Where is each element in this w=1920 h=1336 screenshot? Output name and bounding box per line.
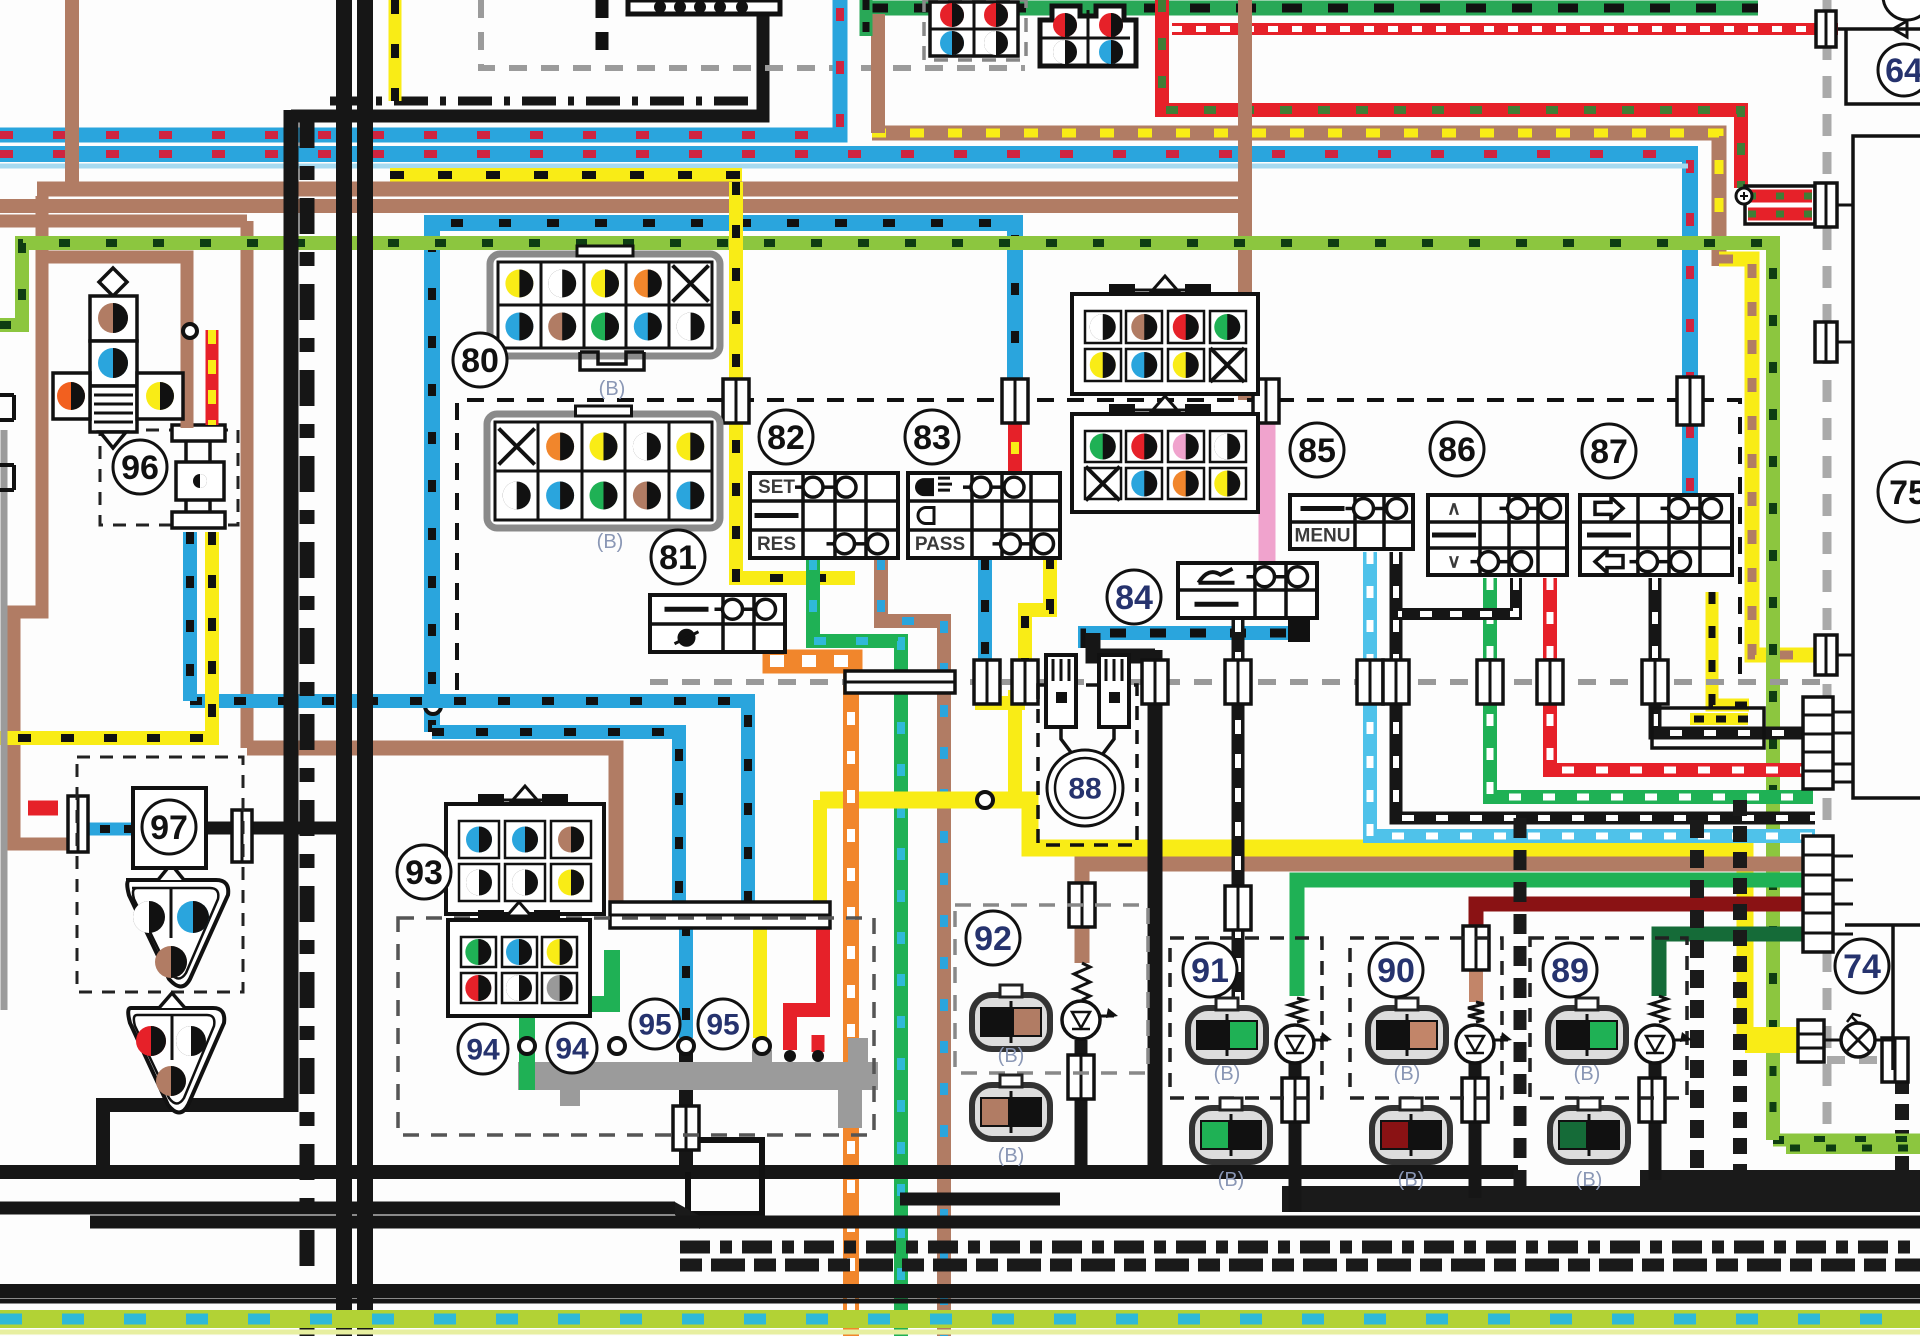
wire battery links [1838, 204, 1853, 207]
wire red 95 [790, 924, 823, 1050]
wire black-white 18 [1396, 552, 1815, 818]
bar 87black [1642, 660, 1668, 704]
wire black 88 main [1148, 650, 1163, 1170]
wire black 86b [1398, 578, 1516, 614]
wire black 87a [1655, 578, 1815, 733]
bar 75 bottom [1815, 635, 1837, 675]
bar 75 top [1815, 322, 1837, 362]
svg-text:SET: SET [758, 477, 795, 498]
circle 93 [397, 845, 451, 899]
connector bar 81 [723, 379, 749, 423]
wire brown-yellow [872, 133, 1719, 266]
svg-text:∧: ∧ [1447, 498, 1461, 519]
bar red top [1816, 11, 1836, 47]
wire brown 90 drop [1469, 956, 1483, 1002]
wire brown 93 drop [241, 221, 254, 748]
connector top edge [628, 0, 780, 14]
connector 93a [446, 786, 604, 914]
circle 94 b [547, 1023, 597, 1073]
wire brown band 2 [0, 199, 1252, 213]
bulb connector 90b [1372, 1098, 1450, 1191]
long connector bar 94-95 [610, 902, 830, 928]
lamp 74 [1824, 1014, 1893, 1057]
switch table 84 [1178, 563, 1317, 618]
connector 80 tail [580, 352, 644, 370]
wire black-white dashed drop A [1733, 800, 1747, 1178]
circle 96 [113, 440, 167, 494]
left edge stub B [0, 465, 14, 490]
svg-text:(B): (B) [1214, 1063, 1241, 1085]
wire black slab B [1640, 1170, 1920, 1192]
lamp 90 [1456, 1025, 1512, 1063]
94-95 link dots [519, 1038, 535, 1054]
wire black bundle A [336, 0, 352, 1336]
circle 97 [142, 800, 196, 854]
svg-text:89: 89 [1551, 952, 1589, 990]
svg-text:84: 84 [1115, 579, 1153, 617]
box 64 [1838, 29, 1920, 104]
circle 85 [1290, 423, 1344, 477]
bar brown 92 [1069, 883, 1095, 927]
wire lime-black 8 [0, 243, 1773, 1140]
svg-text:88: 88 [1068, 773, 1101, 806]
circle 90 [1369, 943, 1423, 997]
connector top mid [930, 2, 1018, 56]
comb connector AB [1803, 697, 1833, 789]
wire red-white 20 [1550, 578, 1813, 770]
wire green-cyan [813, 558, 901, 1336]
relay box 94 [688, 1140, 762, 1214]
connector 93b [448, 902, 590, 1016]
lime dashed frame [1773, 1062, 1920, 1148]
wire blue-black 9a [190, 701, 748, 905]
bulb connector 91a [1188, 998, 1266, 1085]
wire green 94 path [527, 950, 612, 1090]
bar 90 low [1462, 1078, 1488, 1122]
svg-text:93: 93 [405, 854, 443, 892]
black terminal under 84 [1288, 620, 1310, 642]
circle 88 [1047, 750, 1123, 826]
wire black slab A [1282, 1186, 1920, 1212]
wire orange [843, 673, 859, 1336]
svg-text:RES: RES [757, 534, 796, 555]
wire yellow 96 L [0, 532, 212, 738]
red stub 97 [28, 801, 58, 816]
resistor 90 [1468, 1002, 1484, 1022]
bulb connector 90a [1368, 998, 1446, 1085]
resistor 91 [1289, 998, 1305, 1022]
black dashes above top connector [596, 0, 609, 58]
connector bar 83 [1002, 379, 1028, 423]
bar 91 feed top [1225, 660, 1251, 704]
bar blue-yellow [974, 660, 1000, 704]
circle 94 a [458, 1024, 508, 1074]
wire blue-red 1 [0, 0, 840, 135]
wire black top L [291, 0, 763, 116]
wire blue-black 9b [432, 732, 679, 905]
bar 92 low [1068, 1055, 1094, 1099]
diagonal step [675, 1202, 700, 1229]
wire blue-black 7 [432, 223, 1015, 732]
dashed box 91 [1170, 938, 1322, 1098]
wire yellow main [820, 800, 1798, 1040]
svg-text:94: 94 [466, 1034, 500, 1067]
bar 89 low [1639, 1078, 1665, 1122]
wire yellow-black 5 [390, 168, 742, 182]
circle 80 [453, 333, 507, 387]
gray dashed vertical right [1823, 0, 1832, 1130]
wire blue 95 [679, 924, 693, 1038]
red pin dots [784, 1050, 796, 1062]
wire black dashed row A [680, 1241, 1920, 1254]
lamp 89 [1636, 1025, 1692, 1063]
switch table 85 MENU [1290, 495, 1413, 549]
wire yellow to bar [813, 800, 827, 905]
gray dashed harness line [650, 679, 1830, 685]
wire brown band 1 [37, 182, 1252, 197]
wire yellow link U [982, 690, 1025, 703]
svg-text:81: 81 [659, 539, 697, 577]
dashed box 96 [100, 430, 238, 525]
switch table 83 PASS [908, 473, 1060, 558]
wire black row 92 stub [900, 1193, 1060, 1206]
wire red pin 2 [812, 1035, 825, 1052]
horn lines 88 [1061, 727, 1114, 755]
junction dot yellow [977, 792, 993, 808]
wire black dashed row B [680, 1259, 1920, 1272]
wire brown top stub [871, 14, 885, 133]
svg-text:85: 85 [1298, 432, 1336, 470]
wire black 91 drop [1289, 1062, 1302, 1212]
svg-text:(B): (B) [597, 531, 624, 553]
wire pink [1259, 398, 1276, 563]
wire darkgreen 16 [1659, 934, 1815, 996]
dashed box 97 [77, 757, 243, 992]
wire lime frame [1773, 1134, 1920, 1147]
circle 95 b [698, 999, 748, 1049]
wire blue pass [978, 558, 992, 674]
yellow stub thick [1745, 1027, 1798, 1053]
switch table 82 SET/RES [750, 473, 898, 558]
wire blue-red 2 [0, 154, 1690, 500]
svg-text:(B): (B) [1394, 1063, 1421, 1085]
bar 88 feed [1142, 660, 1168, 704]
bulb connector 91b [1192, 1098, 1270, 1191]
wire black mid drop [1514, 818, 1527, 1195]
wire brown 92 feed [1075, 864, 1090, 963]
circle 83 [905, 410, 959, 464]
svg-text:97: 97 [150, 809, 188, 847]
svg-text:(B): (B) [1398, 1169, 1425, 1191]
wire yellow drop [1008, 690, 1022, 800]
bar yellow [1012, 660, 1038, 704]
wire pale yellow bottom [0, 1330, 1920, 1335]
left edge stub A [0, 395, 14, 420]
gray dashed stub 74 [1827, 1056, 1920, 1064]
svg-text:(B): (B) [1574, 1063, 1601, 1085]
connector bar pink [1253, 379, 1279, 423]
dashed box 88 [1038, 685, 1137, 845]
wire black row L3 [0, 1202, 675, 1215]
wire black 97 L [103, 1105, 298, 1178]
box 74 [1845, 925, 1920, 1070]
wire black right drop [1690, 820, 1704, 1180]
svg-text:75: 75 [1889, 474, 1920, 512]
wire yellow 81 vert [736, 182, 855, 578]
gray bus bar [518, 1062, 878, 1090]
bar red20 [1537, 660, 1563, 704]
bar 90 top [1463, 926, 1489, 970]
wire black row 6 [0, 1299, 1920, 1304]
wire blue-black 22 [1085, 633, 1308, 648]
bar battery [1815, 183, 1837, 227]
wire yellow 87b [1712, 592, 1749, 705]
wire black 90 drop [1469, 1062, 1482, 1198]
switch table 86 [1428, 495, 1567, 575]
svg-text:86: 86 [1438, 431, 1476, 469]
wire black 95 drop [679, 1046, 693, 1172]
connector triangle 97b [128, 993, 224, 1113]
connector top right [1040, 6, 1136, 66]
wire gray dashed boundary top [481, 0, 1025, 68]
connector bar 87 [1677, 377, 1703, 425]
wire brown left edge [14, 196, 70, 844]
wire yellow pass [1025, 557, 1050, 676]
black box detail right [1652, 708, 1764, 748]
wire brown band 3 [0, 215, 247, 228]
wire black 92 drop [1075, 1040, 1088, 1172]
circle 89 [1543, 943, 1597, 997]
connector bar long [845, 671, 955, 693]
svg-text:PASS: PASS [915, 534, 965, 555]
svg-text:94: 94 [555, 1033, 589, 1066]
svg-text:(B): (B) [1576, 1169, 1603, 1191]
bar black18 [1383, 660, 1409, 704]
svg-text:90: 90 [1377, 952, 1415, 990]
wire black 97 out [205, 822, 344, 835]
bulb connector 92b [972, 1075, 1050, 1167]
component 97 box [133, 788, 206, 868]
circle 84 [1107, 570, 1161, 624]
svg-text:87: 87 [1590, 433, 1628, 471]
svg-text:95: 95 [706, 1009, 739, 1042]
switch table 81 [650, 595, 785, 652]
wire light blue thin [0, 164, 1688, 169]
bar 97 left [68, 796, 88, 852]
wire yellow-brown right [1719, 259, 1830, 655]
junction dot [425, 698, 441, 714]
wire brown 13 [247, 748, 616, 907]
svg-text:95: 95 [638, 1009, 671, 1042]
lamp 92 [1062, 1001, 1118, 1039]
circle 82 [759, 410, 813, 464]
bar 91 low [1282, 1078, 1308, 1122]
wire brown vert right [1238, 0, 1252, 400]
wire yellow-black top stub [389, 0, 402, 101]
wire black 22 link [1093, 633, 1155, 656]
wire brown 96 branch [42, 257, 187, 428]
bar lightblue [1357, 660, 1383, 704]
wire black dash-dot top [330, 97, 748, 106]
circle 92 [966, 911, 1020, 965]
svg-text:80: 80 [461, 342, 499, 380]
svg-text:92: 92 [974, 920, 1012, 958]
wire gray left edge [1, 430, 8, 1010]
dashed box 90 [1350, 938, 1502, 1098]
dashed box 89 [1530, 938, 1687, 1098]
connector triangle 97a [126, 864, 228, 987]
component 96 fuse [172, 425, 225, 528]
bar 91 feed mid [1225, 886, 1251, 930]
wire green top stub [860, 0, 873, 36]
resistor 92 [1074, 963, 1090, 1000]
wire red-black top [1172, 23, 1838, 35]
spark plug B [1099, 655, 1129, 727]
battery connector [1736, 186, 1815, 224]
svg-text:74: 74 [1843, 948, 1881, 986]
diode 64 [1893, 21, 1907, 37]
dashed box 93-95 [398, 918, 874, 1135]
wire orange connector [763, 650, 862, 673]
wire green-black top [868, 1, 1758, 16]
wire black 91 feed [1232, 618, 1245, 1000]
bulb connector 89b [1550, 1098, 1628, 1191]
svg-text:(B): (B) [998, 1145, 1025, 1167]
box 75 [1853, 136, 1920, 798]
svg-text:64: 64 [1885, 52, 1920, 90]
wire black-white dashed drop B [1895, 1052, 1909, 1186]
wire red top link to 64 [1838, 28, 1868, 31]
terminal dot 96 [183, 324, 197, 338]
connector 80 [490, 246, 720, 356]
bar 97 right [232, 810, 252, 862]
switch table 87 [1580, 495, 1732, 575]
wire yellow below bar [753, 924, 767, 1038]
svg-text:(B): (B) [1218, 1169, 1245, 1191]
wire red-yellow 96 stub [206, 330, 219, 425]
svg-text:82: 82 [767, 419, 805, 457]
wire black bundle C [284, 110, 299, 1112]
circle 91 [1183, 943, 1237, 997]
bar 95 black [673, 1106, 699, 1150]
bar green19 [1477, 660, 1503, 704]
wire black bundle B [357, 0, 373, 1336]
svg-text:83: 83 [913, 419, 951, 457]
bulb connector 89a [1548, 998, 1626, 1085]
bulb connector 92a [972, 985, 1050, 1067]
wire red-yellow stub [1008, 412, 1022, 473]
wire red-green [1162, 0, 1741, 188]
svg-text:96: 96 [121, 449, 159, 487]
svg-text:MENU: MENU [1295, 526, 1351, 547]
comb connector C [1803, 836, 1833, 952]
connector cross left [53, 268, 183, 448]
wire black dashed bundle [300, 112, 315, 1336]
wire black row L2 [0, 1165, 1518, 1179]
circle 75 [1878, 462, 1920, 522]
wire brown comb [1082, 864, 1815, 960]
comb links [1833, 712, 1853, 934]
wire blue 96 vert [183, 532, 197, 701]
wire green 14 [1297, 880, 1815, 996]
circle 74 [1835, 939, 1889, 993]
connector 83 upper [1072, 276, 1258, 394]
blue link to 97 [86, 823, 133, 836]
comb connector D [1798, 1020, 1824, 1062]
bar 74 right [1882, 1038, 1908, 1082]
wire brown-blue [881, 558, 944, 1336]
wire black row 5 [0, 1284, 1920, 1298]
wire black row 4 [90, 1216, 1920, 1229]
wire lime-cyan bottom [0, 1310, 1920, 1328]
wire black 89 drop [1649, 1062, 1662, 1180]
spark plug A [1046, 655, 1076, 727]
connector 84 lower [1072, 396, 1258, 512]
circle 64 [1878, 44, 1920, 96]
resistor 89 [1651, 996, 1667, 1022]
wire brown vert A [65, 0, 79, 196]
dashed box 92 [955, 905, 1148, 1073]
circle 81 [651, 530, 705, 584]
wire lightblue 17 [1370, 552, 1815, 836]
wire green-white 19 [1490, 578, 1813, 797]
svg-text:(B): (B) [599, 378, 626, 400]
wire darkred 15 [1476, 904, 1815, 940]
dashed box main top [457, 400, 1740, 690]
circle 95 a [630, 999, 680, 1049]
connector 81 [487, 406, 720, 528]
svg-text:∨: ∨ [1447, 552, 1461, 573]
svg-text:(B): (B) [998, 1045, 1025, 1067]
svg-text:91: 91 [1191, 952, 1229, 990]
circle top corner [1883, 0, 1920, 20]
circle 86 [1430, 422, 1484, 476]
circle 87 [1582, 424, 1636, 478]
dashed box top conn [924, 0, 1026, 60]
lamp 91 [1276, 1025, 1332, 1063]
